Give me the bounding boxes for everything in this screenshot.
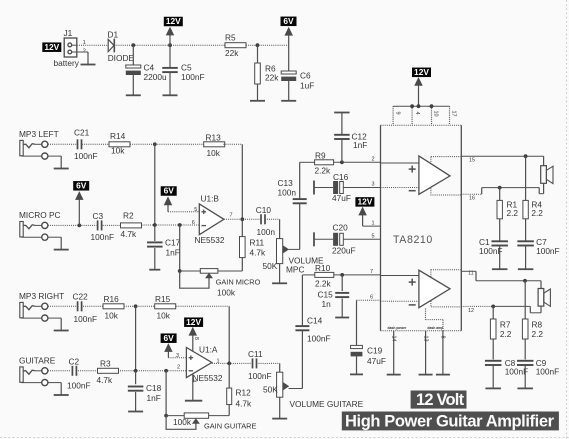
svg-text:1nF: 1nF (353, 140, 367, 150)
svg-text:100nF: 100nF (74, 314, 98, 324)
svg-text:C6: C6 (300, 71, 311, 81)
svg-text:C21: C21 (74, 128, 90, 138)
svg-text:100nF: 100nF (74, 151, 98, 161)
svg-text:MP3 RIGHT: MP3 RIGHT (19, 291, 64, 301)
svg-text:12V: 12V (357, 197, 372, 207)
svg-text:2: 2 (177, 365, 180, 371)
svg-text:2.2: 2.2 (531, 208, 543, 218)
svg-text:C18: C18 (146, 383, 162, 393)
svg-text:MP3 LEFT: MP3 LEFT (19, 129, 59, 139)
svg-text:7: 7 (230, 212, 233, 218)
svg-text:6: 6 (192, 220, 195, 226)
svg-text:6V: 6V (76, 180, 87, 190)
svg-text:2: 2 (83, 48, 86, 54)
svg-text:100nF: 100nF (91, 232, 115, 242)
svg-text:10: 10 (433, 111, 439, 117)
svg-text:High Power Guitar Amplifier: High Power Guitar Amplifier (345, 412, 555, 430)
svg-text:100nF: 100nF (248, 371, 272, 381)
svg-text:MICRO PC: MICRO PC (19, 210, 61, 220)
svg-text:100nF: 100nF (67, 380, 91, 390)
svg-text:12: 12 (468, 308, 474, 314)
svg-text:220uF: 220uF (332, 245, 356, 255)
svg-text:8: 8 (193, 337, 199, 340)
svg-text:100nF: 100nF (536, 367, 560, 377)
svg-text:22k: 22k (225, 48, 239, 58)
svg-text:J1: J1 (64, 28, 73, 38)
svg-text:D1: D1 (108, 30, 119, 40)
svg-text:10k: 10k (157, 311, 171, 321)
svg-text:C19: C19 (367, 345, 383, 355)
svg-text:2.2: 2.2 (532, 329, 544, 339)
svg-text:C5: C5 (181, 62, 192, 72)
svg-text:R16: R16 (104, 294, 120, 304)
svg-text:16: 16 (469, 195, 475, 201)
svg-text:dash amp: dash amp (427, 326, 443, 330)
svg-text:100n: 100n (278, 187, 297, 197)
svg-text:R5: R5 (225, 33, 236, 43)
svg-text:C10: C10 (256, 205, 272, 215)
svg-text:12V: 12V (166, 16, 181, 26)
svg-text:C11: C11 (248, 349, 263, 359)
svg-text:10k: 10k (207, 148, 221, 158)
svg-text:10k: 10k (111, 146, 125, 156)
svg-text:12 Volt: 12 Volt (416, 391, 465, 409)
svg-text:C22: C22 (73, 292, 89, 302)
svg-text:100nF: 100nF (307, 333, 331, 343)
svg-text:4.7k: 4.7k (236, 399, 253, 409)
svg-text:8: 8 (440, 336, 446, 339)
svg-text:C16: C16 (333, 172, 349, 182)
svg-text:7: 7 (370, 269, 373, 275)
svg-text:12V: 12V (186, 317, 201, 327)
svg-text:6: 6 (370, 294, 373, 300)
svg-text:C2: C2 (69, 357, 80, 367)
svg-text:2.2: 2.2 (507, 208, 519, 218)
svg-text:U1:B: U1:B (201, 193, 220, 203)
svg-text:6V: 6V (164, 186, 175, 196)
svg-text:R15: R15 (155, 294, 171, 304)
svg-text:50K: 50K (263, 261, 278, 271)
svg-text:4: 4 (414, 112, 420, 115)
svg-text:C17: C17 (165, 237, 181, 247)
svg-text:MPC: MPC (286, 264, 304, 274)
svg-text:14: 14 (391, 336, 397, 342)
svg-text:1nF: 1nF (166, 247, 180, 257)
svg-text:13: 13 (422, 336, 428, 342)
svg-text:DIODE: DIODE (108, 53, 135, 63)
svg-text:6V: 6V (163, 333, 174, 343)
svg-text:battery: battery (54, 58, 80, 68)
svg-text:dash power: dash power (388, 326, 408, 330)
svg-text:2.2: 2.2 (500, 329, 512, 339)
svg-text:R11: R11 (250, 238, 265, 248)
svg-text:1nF: 1nF (147, 393, 161, 403)
svg-text:12V: 12V (414, 67, 429, 77)
svg-text:22k: 22k (265, 73, 279, 83)
svg-text:R3: R3 (100, 359, 111, 369)
svg-text:2.2k: 2.2k (315, 278, 332, 288)
svg-text:3: 3 (176, 353, 179, 359)
svg-text:R12: R12 (236, 388, 252, 398)
svg-text:C14: C14 (307, 316, 323, 326)
svg-text:5: 5 (371, 234, 374, 240)
svg-text:47uF: 47uF (332, 193, 351, 203)
svg-text:1: 1 (371, 220, 374, 226)
svg-text:R13: R13 (206, 133, 222, 143)
svg-text:4: 4 (190, 379, 196, 382)
svg-text:100nF: 100nF (536, 246, 560, 256)
svg-text:100n: 100n (257, 227, 276, 237)
svg-text:1n: 1n (322, 299, 332, 309)
svg-text:U1:A: U1:A (199, 344, 218, 354)
svg-text:5: 5 (194, 207, 197, 213)
svg-text:GAIN MICRO: GAIN MICRO (216, 278, 261, 287)
svg-text:10k: 10k (105, 311, 119, 321)
svg-text:100k: 100k (217, 287, 236, 297)
svg-text:15: 15 (469, 157, 475, 163)
svg-text:GAIN GUITARE: GAIN GUITARE (204, 421, 256, 430)
svg-text:2.2k: 2.2k (315, 165, 332, 175)
svg-text:3: 3 (371, 182, 374, 188)
svg-text:R14: R14 (110, 131, 126, 141)
svg-text:4.7k: 4.7k (250, 248, 267, 258)
svg-text:100nF: 100nF (181, 72, 205, 82)
svg-text:9: 9 (395, 112, 401, 115)
svg-text:2: 2 (371, 156, 374, 162)
svg-text:TA8210: TA8210 (393, 234, 433, 246)
svg-text:2200u: 2200u (144, 72, 167, 82)
svg-text:4.7k: 4.7k (121, 229, 138, 239)
svg-text:47uF: 47uF (367, 356, 386, 366)
svg-text:NE5532: NE5532 (195, 235, 225, 245)
svg-text:GUITARE: GUITARE (19, 355, 56, 365)
svg-text:C20: C20 (333, 223, 349, 233)
svg-text:100k: 100k (173, 417, 192, 427)
svg-text:100nF: 100nF (479, 246, 503, 256)
svg-text:12V: 12V (44, 42, 59, 52)
svg-text:R10: R10 (315, 263, 331, 273)
svg-text:1uF: 1uF (300, 80, 314, 90)
svg-text:VOLUME GUITARE: VOLUME GUITARE (290, 399, 364, 409)
svg-text:50K: 50K (263, 385, 278, 395)
svg-text:C3: C3 (93, 211, 104, 221)
svg-text:17: 17 (451, 111, 457, 117)
svg-text:C4: C4 (144, 62, 155, 72)
svg-text:6V: 6V (283, 16, 294, 26)
svg-text:R2: R2 (123, 211, 134, 221)
svg-text:R9: R9 (315, 150, 326, 160)
svg-text:4.7k: 4.7k (97, 375, 114, 385)
svg-text:C13: C13 (278, 178, 294, 188)
